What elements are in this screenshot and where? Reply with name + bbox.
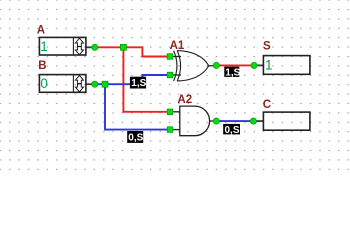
svg-text:0,S: 0,S xyxy=(225,125,240,136)
svg-text:1,S: 1,S xyxy=(225,67,240,78)
svg-text:A1: A1 xyxy=(170,40,185,52)
svg-text:1: 1 xyxy=(40,39,48,54)
svg-text:C: C xyxy=(263,99,271,111)
svg-text:A2: A2 xyxy=(177,94,192,106)
svg-text:A: A xyxy=(37,24,45,36)
svg-text:1,S: 1,S xyxy=(131,78,146,89)
svg-text:B: B xyxy=(38,60,46,72)
svg-text:0: 0 xyxy=(40,76,48,91)
svg-text:S: S xyxy=(263,41,271,53)
svg-text:0,S: 0,S xyxy=(128,133,143,144)
svg-text:1: 1 xyxy=(265,58,273,73)
